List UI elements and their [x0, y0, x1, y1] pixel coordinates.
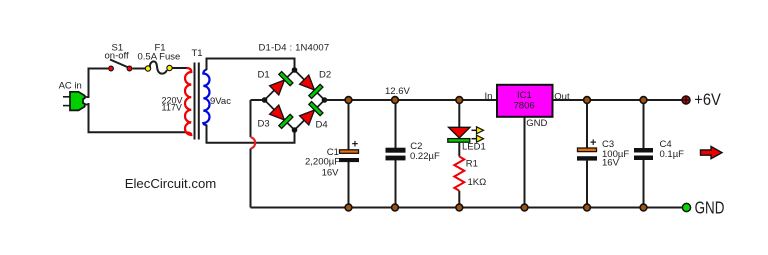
svg-text:LED1: LED1 — [462, 142, 486, 153]
junction dot LED top — [456, 97, 463, 104]
wire: plug prong top — [63, 96, 71, 98]
wire: bridge left node to negative vertical — [251, 99, 265, 101]
svg-text:+6V: +6V — [694, 90, 721, 109]
junction dot C1 top — [345, 97, 352, 104]
junction dot C3 bottom — [584, 204, 591, 211]
junction dot C2 bottom — [392, 204, 399, 211]
junction dot C4 bottom — [640, 204, 647, 211]
switch S1 lever — [110, 60, 129, 68]
wire: negative vertical upper part — [250, 100, 252, 137]
svg-text:T1: T1 — [192, 48, 203, 59]
svg-text:0.22µF: 0.22µF — [410, 151, 440, 162]
svg-text:+: + — [590, 137, 596, 149]
transformer T1 primary winding — [185, 68, 191, 135]
wire: positive rail bridge to IC — [325, 99, 498, 101]
svg-text:0.1µF: 0.1µF — [660, 149, 685, 160]
resistor R1 — [454, 157, 464, 191]
svg-text:D1-D4 : 1N4007: D1-D4 : 1N4007 — [259, 43, 330, 54]
capacitor C4 — [634, 148, 653, 153]
svg-text:D3: D3 — [258, 119, 270, 130]
fuse F1 element curve — [150, 61, 167, 73]
switch S1 terminal dot right — [127, 66, 132, 71]
wire: secondary bottom to bridge bottom node — [207, 125, 295, 143]
LED1 light arrow lower — [472, 135, 484, 142]
terminal GND — [682, 203, 690, 211]
svg-text:D2: D2 — [319, 70, 331, 81]
diode D3 — [269, 104, 293, 128]
wire: ground rail — [251, 207, 684, 209]
wire: LED branch vertical top — [458, 100, 460, 128]
fuse F1 terminal dot left — [145, 66, 150, 71]
switch S1 terminal dot left — [109, 66, 114, 71]
wire: IC ground pin — [524, 118, 526, 208]
crossover hop — [251, 137, 256, 148]
junction dot C4 top — [640, 97, 647, 104]
transformer T1 core — [194, 63, 196, 140]
wire: plug top to switch — [89, 69, 109, 99]
node bridge bottom — [292, 127, 298, 133]
svg-text:1KΩ: 1KΩ — [468, 177, 487, 188]
junction dot C1 bottom — [345, 204, 352, 211]
svg-text:16V: 16V — [602, 158, 620, 169]
wire: C1 vertical — [348, 100, 350, 150]
diode D2 — [299, 74, 323, 98]
output arrow — [701, 147, 723, 159]
wire: C2 vertical — [395, 100, 397, 149]
wire: bridge edge bottom-right — [295, 100, 325, 130]
svg-text:+: + — [352, 138, 358, 150]
terminal +6V — [681, 95, 690, 104]
IC regulator IC1 7806 — [497, 85, 553, 117]
node bridge right — [322, 97, 328, 103]
wire: positive rail IC out to terminal — [553, 99, 683, 101]
node bridge left — [262, 97, 268, 103]
capacitor C3 — [578, 148, 597, 152]
svg-text:9Vac: 9Vac — [210, 96, 231, 107]
svg-text:2,200µF: 2,200µF — [305, 156, 340, 167]
svg-text:D1: D1 — [258, 70, 270, 81]
wire: switch to fuse — [133, 68, 146, 70]
AC plug connector — [70, 92, 85, 111]
wire: negative vertical lower part — [250, 149, 252, 208]
diode D4 — [299, 102, 323, 126]
svg-text:16V: 16V — [322, 168, 340, 179]
wire: bridge edge top-right — [295, 70, 325, 100]
fuse F1 terminal dot right — [167, 65, 172, 70]
svg-text:AC in: AC in — [59, 80, 82, 91]
svg-text:on-off: on-off — [105, 51, 129, 62]
svg-text:12.6V: 12.6V — [385, 86, 410, 97]
svg-text:ElecCircuit.com: ElecCircuit.com — [125, 176, 217, 191]
wire: plug prong bottom — [63, 105, 71, 107]
wire: bridge edge left-bottom — [265, 100, 295, 130]
junction dot R1 bottom — [456, 204, 463, 211]
capacitor C2 — [386, 148, 406, 153]
wire: C4 vertical — [643, 100, 645, 149]
transformer T1 secondary winding — [203, 70, 209, 126]
svg-text:117V: 117V — [162, 103, 182, 113]
svg-text:7806: 7806 — [514, 100, 535, 111]
node bridge top — [292, 67, 298, 73]
wire: R1 to ground rail — [458, 191, 460, 208]
wire: LED to R1 — [458, 142, 460, 157]
LED LED1 — [449, 127, 471, 138]
diode D1 — [269, 72, 293, 96]
wire: fuse to transformer — [173, 67, 188, 69]
wire: secondary top to bridge top node — [207, 59, 295, 71]
junction dot C2 top — [392, 97, 399, 104]
svg-text:GND: GND — [695, 197, 725, 217]
junction dot IC ground — [521, 204, 528, 211]
svg-text:D4: D4 — [316, 120, 328, 131]
LED1 light arrow upper — [472, 127, 484, 134]
wire: plug bottom down-left vertical — [89, 103, 187, 132]
capacitor C1 — [340, 150, 359, 154]
svg-text:0.5A Fuse: 0.5A Fuse — [138, 52, 181, 63]
wire: bridge edge left-top — [265, 70, 295, 100]
wire: C3 vertical — [586, 100, 588, 149]
svg-text:R1: R1 — [466, 159, 478, 170]
junction dot C3 top — [584, 97, 591, 104]
svg-text:GND: GND — [526, 118, 547, 129]
svg-text:In: In — [485, 91, 493, 102]
